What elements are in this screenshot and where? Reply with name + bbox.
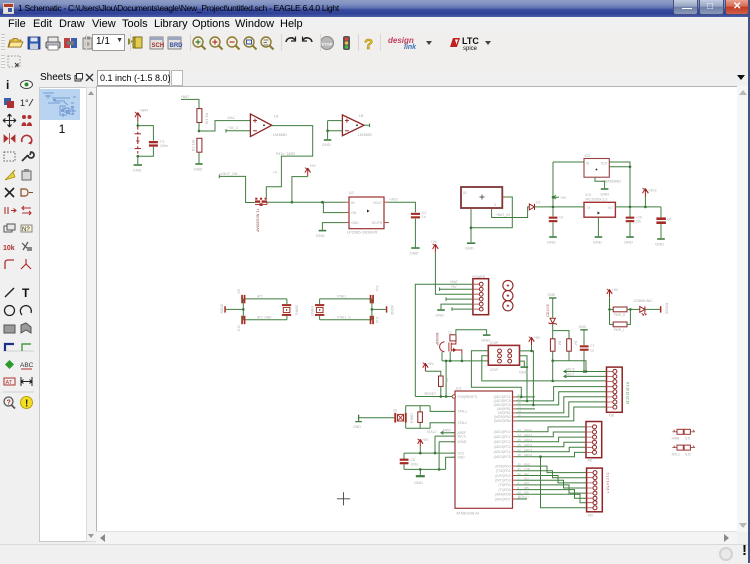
net ADC7 arrow wire: [564, 375, 607, 378]
wire IC2 out: [609, 162, 630, 207]
svg-text:AT2_GND: AT2_GND: [257, 316, 272, 320]
svg-text:VO: VO: [608, 206, 613, 210]
capacitor C12: [370, 316, 374, 324]
wire AGND: [439, 442, 455, 470]
resistor R8: [418, 412, 423, 423]
wire AVCC: [435, 436, 455, 453]
svg-text:10k: 10k: [3, 245, 15, 252]
svg-text:10k: 10k: [444, 378, 448, 384]
svg-text:GND: GND: [414, 480, 423, 485]
svg-text:ICSP: ICSP: [490, 368, 499, 372]
svg-text:1u: 1u: [590, 348, 594, 352]
svg-text:+5V: +5V: [427, 362, 434, 366]
wire C2 to ground: [414, 219, 416, 248]
svg-text:SCH: SCH: [152, 43, 165, 49]
svg-text:CD1005: CD1005: [546, 304, 550, 317]
wire ICSP gnd: [520, 361, 525, 366]
svg-text:XTAL1_G: XTAL1_G: [337, 316, 351, 320]
svg-text:T1 NDS356AP: T1 NDS356AP: [256, 209, 260, 233]
op-amp IC1B: [342, 115, 364, 136]
mcu left pin names: [458, 395, 478, 459]
svg-text:GND: GND: [481, 337, 490, 342]
resistor R2: [197, 138, 202, 152]
svg-text:25: 25: [518, 438, 522, 442]
svg-text:AGND: AGND: [458, 440, 468, 444]
svg-text:SJ2: SJ2: [685, 452, 691, 456]
ground C2: [411, 247, 419, 249]
svg-text:GND: GND: [600, 191, 609, 196]
net LIGHT_ON: [219, 175, 255, 203]
svg-text:ADC3: ADC3: [524, 443, 532, 447]
svg-text:1°: 1°: [20, 98, 29, 108]
net ADC6 arrow wire: [564, 370, 607, 373]
capacitor C8: [403, 453, 405, 459]
svg-text:LM358D: LM358D: [358, 133, 373, 137]
svg-text:R2 10k: R2 10k: [192, 139, 196, 151]
svg-text:C6: C6: [667, 217, 671, 221]
wire D1 to +5V rail node: [535, 206, 554, 208]
svg-text:+5V: +5V: [422, 438, 429, 442]
svg-text:22u: 22u: [636, 220, 642, 224]
svg-text:IO3: IO3: [524, 477, 529, 481]
connector ICSP: [488, 345, 519, 365]
net stub GND crystal Q2: [359, 417, 395, 419]
wire pc stair 4: [516, 442, 586, 447]
svg-text:ADC2: ADC2: [524, 438, 532, 442]
svg-text:GND: GND: [579, 325, 587, 329]
wire pb2 stub: [516, 408, 535, 410]
svg-text:8 9 10 11 12 13: 8 9 10 11 12 13: [626, 382, 630, 404]
svg-text:U2: U2: [349, 190, 355, 195]
wire pc stair 1: [516, 427, 586, 432]
svg-text:LP2985-33DBVR: LP2985-33DBVR: [347, 229, 378, 234]
svg-text:GND: GND: [322, 142, 331, 147]
svg-text:+BAT: +BAT: [450, 280, 458, 284]
wire C7 down: [583, 351, 585, 372]
connector SV1 top: [607, 367, 623, 412]
svg-text:26: 26: [518, 443, 522, 447]
wire IC1A output net P47n: [266, 126, 312, 198]
crosshair cursor: [337, 492, 350, 505]
svg-text:VOUT: VOUT: [373, 201, 382, 205]
svg-text:(ADC3)PC3: (ADC3)PC3: [494, 445, 511, 449]
wire ICSP pin4 right: [520, 356, 528, 401]
capacitor C2: [411, 213, 420, 219]
wire rail into IC3: [553, 206, 584, 208]
svg-text:PWR_R: PWR_R: [614, 313, 626, 317]
ground IC2: [601, 188, 609, 190]
svg-text:GND: GND: [547, 239, 556, 244]
wire pb1 stub mosi: [516, 396, 535, 398]
mcu right pin names: [494, 395, 511, 501]
svg-text:!: !: [25, 399, 28, 410]
svg-text:ADC1: ADC1: [524, 433, 532, 437]
jumper SJ1: [672, 430, 695, 432]
wire IC3 gnd: [597, 217, 599, 236]
op-amp IC1A: [250, 114, 271, 137]
svg-text:AREF: AREF: [443, 429, 452, 433]
svg-text:15: 15: [518, 413, 522, 417]
node battery bottom: [137, 155, 140, 158]
resistor R7: [439, 376, 444, 386]
svg-text:GND: GND: [194, 167, 203, 172]
svg-text:ATMEGA8-AI: ATMEGA8-AI: [456, 512, 479, 516]
svg-text:IO5: IO5: [524, 486, 529, 490]
wire led right: [645, 308, 660, 310]
supply flag +3V3: [643, 188, 649, 197]
svg-text:(RXD)PD0: (RXD)PD0: [495, 464, 510, 468]
wire pb stair row8: [516, 407, 607, 421]
svg-text:C10: C10: [237, 325, 241, 331]
svg-text:D1: D1: [536, 201, 540, 205]
svg-text:P47n_330R: P47n_330R: [276, 152, 295, 156]
wire crystal A loop: [243, 299, 287, 320]
ground mosfet: [483, 334, 491, 336]
power jack X1: [461, 187, 502, 208]
svg-text:HWB: HWB: [672, 437, 680, 441]
transistor T1: [255, 198, 267, 206]
capacitor C1: [149, 141, 158, 147]
svg-text:VI: VI: [587, 206, 590, 210]
mcu right pin stubs: [513, 397, 517, 499]
svg-text:COMMUNIC: COMMUNIC: [634, 299, 654, 303]
net AREF arrow: [441, 431, 455, 434]
svg-text:1u: 1u: [422, 215, 426, 219]
resistor R5: [610, 308, 614, 310]
wire pb stair row7: [516, 402, 607, 417]
svg-text:AT2: AT2: [257, 295, 263, 299]
wire R2 to ground: [198, 152, 200, 163]
node divider: [198, 130, 201, 133]
svg-text:0 1 2 3 4 5 6 7: 0 1 2 3 4 5 6 7: [605, 473, 609, 494]
svg-text:PC6(/RESET): PC6(/RESET): [458, 395, 478, 399]
svg-text:GND: GND: [465, 246, 474, 251]
capacitor C4: [549, 217, 558, 223]
svg-text:?: ?: [364, 36, 373, 52]
mcu pin stubs left: [452, 397, 456, 458]
svg-text:ON: ON: [351, 211, 357, 215]
svg-text:(ADC4)PC4: (ADC4)PC4: [494, 450, 511, 454]
resistor R6: [610, 309, 614, 324]
svg-text:C9: C9: [237, 289, 241, 293]
wire IC1B output stub: [364, 124, 370, 128]
svg-text:100n: 100n: [410, 462, 418, 466]
wire POWER pin5 to ground: [441, 304, 473, 309]
svg-text:GND: GND: [133, 168, 142, 173]
wire opamp minus stub: [226, 129, 250, 133]
svg-text:link: link: [404, 44, 417, 51]
svg-text:RXLC: RXLC: [672, 452, 681, 456]
supply flag +BAT: [135, 112, 141, 121]
svg-text:+5V: +5V: [451, 285, 458, 289]
mounting hole H3: [503, 301, 513, 311]
svg-text:ADC0: ADC0: [524, 428, 532, 432]
battery G1: [135, 127, 141, 155]
mounting hole H1: [503, 280, 513, 290]
IC U2 LP2985: [349, 197, 384, 229]
svg-text:+5V: +5V: [534, 336, 541, 340]
svg-text:BSS84P: BSS84P: [435, 333, 439, 347]
svg-text:(TXD)PD1: (TXD)PD1: [496, 469, 511, 473]
wire crystal B loop: [320, 299, 372, 320]
svg-text:GND: GND: [593, 239, 602, 244]
wire rail down to reset: [445, 361, 447, 397]
svg-text:16MHz: 16MHz: [310, 305, 314, 316]
svg-text:+BAT: +BAT: [181, 95, 191, 99]
svg-text:R1 10k: R1 10k: [205, 113, 209, 125]
supply flag +5V R7: [423, 363, 428, 371]
svg-text:N?: N?: [22, 227, 30, 233]
svg-text:TXD: TXD: [524, 467, 531, 471]
wire battery flag stem: [137, 121, 139, 126]
ground IC1B: [324, 139, 331, 141]
wire mosfet drain top to ground: [456, 330, 487, 336]
svg-text:X1: X1: [463, 191, 467, 195]
svg-text:LTC: LTC: [462, 36, 479, 46]
svg-text:IC2: IC2: [585, 154, 591, 158]
wire ICSP MISO: [482, 356, 607, 381]
svg-text:MC33269-3.3: MC33269-3.3: [586, 197, 608, 201]
svg-text:BRD: BRD: [170, 43, 184, 49]
wire R3 R4 bottoms: [553, 351, 586, 371]
svg-text:16MHz: 16MHz: [295, 305, 299, 316]
svg-text:11: 11: [518, 495, 521, 499]
svg-text:i: i: [6, 78, 9, 92]
wire reset net: [415, 396, 452, 398]
wire POWER pin3: [435, 253, 473, 294]
svg-text:XTAL2: XTAL2: [458, 421, 468, 425]
svg-text:(INT0)PD2: (INT0)PD2: [495, 474, 510, 478]
wire pb stair row4: [516, 387, 607, 401]
svg-text:AGND: AGND: [390, 305, 394, 315]
svg-text:1M: 1M: [557, 341, 561, 346]
svg-text:PWR_L: PWR_L: [614, 328, 625, 332]
svg-text:XTAL1: XTAL1: [458, 410, 468, 414]
svg-text:AGND: AGND: [220, 303, 224, 313]
ground battery: [134, 164, 142, 166]
ground mcu: [419, 469, 421, 475]
svg-text:23: 23: [518, 428, 522, 432]
svg-text:1A: 1A: [274, 115, 279, 119]
svg-text:(MISO)PB4: (MISO)PB4: [494, 419, 511, 423]
wire pd2 stair 6: [516, 490, 587, 499]
svg-text:IO7: IO7: [524, 495, 529, 499]
node U2 in: [321, 201, 324, 204]
crystal Q1: [282, 304, 291, 316]
svg-text:+9V: +9V: [560, 196, 567, 200]
svg-text:IO6: IO6: [524, 491, 529, 495]
wire long drop to sv3: [541, 457, 587, 508]
wire TVS node: [553, 324, 569, 339]
wire POWER pin6: [452, 307, 473, 311]
wire pc stair 2: [516, 432, 586, 437]
svg-text:(T1)PD5: (T1)PD5: [498, 488, 510, 492]
svg-text:AD: AD: [588, 459, 593, 463]
svg-text:IO8: IO8: [609, 414, 615, 418]
svg-text:OUT: OUT: [601, 162, 608, 166]
svg-text:DAC: DAC: [228, 116, 236, 120]
svg-text:30: 30: [518, 462, 522, 466]
net stub crystal A left: [226, 308, 244, 310]
svg-text:+5V: +5V: [431, 240, 438, 244]
svg-text:GND: GND: [655, 241, 664, 246]
wire IC3 out rail: [615, 206, 661, 208]
svg-text:+3V3: +3V3: [648, 189, 657, 193]
svg-text:RXLED: RXLED: [665, 303, 669, 315]
svg-text:GND: GND: [410, 250, 419, 255]
svg-text:C1: C1: [160, 140, 165, 144]
mcu reset bubble: [452, 395, 455, 398]
svg-text:+5V_2: +5V_2: [228, 126, 239, 130]
wire jack center pin: [492, 207, 530, 218]
wire POWER pin1 +BAT / reset rail: [415, 284, 473, 396]
svg-text:T: T: [22, 286, 30, 300]
jumper SJ2: [672, 446, 695, 448]
supply flag +5V POWER pin3: [433, 244, 439, 253]
svg-text:+BAT_IN: +BAT_IN: [496, 213, 511, 217]
svg-text:ADC4: ADC4: [524, 448, 532, 452]
svg-text:(AIN0)PD6: (AIN0)PD6: [495, 493, 511, 497]
net stub crystal B right: [372, 308, 386, 310]
svg-text:100n: 100n: [160, 144, 168, 148]
wire C8 bottom row: [404, 457, 455, 469]
capacitor C7: [580, 345, 589, 351]
wire main vertical +9V: [552, 162, 554, 216]
svg-text:GND: GND: [458, 456, 466, 460]
supply flag +5V transistor: [305, 168, 311, 177]
wire ICSP MOSI: [471, 351, 521, 397]
wire mosfet to rail: [442, 352, 462, 361]
svg-text:IO4: IO4: [524, 481, 529, 485]
svg-text:+BAT: +BAT: [140, 109, 150, 113]
svg-text:GND: GND: [548, 293, 556, 297]
svg-text:31: 31: [518, 467, 522, 471]
wire U2 VOUT: [388, 202, 416, 212]
wire node to opamp plus: [199, 121, 250, 131]
wire crystal loop top: [406, 406, 455, 413]
wire pd2 stair 1: [516, 466, 587, 473]
svg-text:?: ?: [7, 400, 11, 407]
svg-text:10: 10: [518, 491, 522, 495]
crystal Q3: [315, 304, 324, 316]
ground divider: [195, 163, 202, 165]
crystal Q2: [394, 413, 406, 423]
wire battery loop: [138, 126, 154, 157]
svg-text:+3V3: +3V3: [389, 198, 398, 202]
capacitor C11: [370, 295, 374, 303]
wires IC1B inputs: [328, 121, 343, 140]
diode D2 zener: [549, 318, 557, 324]
capacitor C10: [241, 316, 245, 324]
wire R1 to node: [198, 123, 200, 132]
svg-text:IN: IN: [351, 201, 355, 205]
wire pd2 stair 2: [516, 471, 587, 478]
svg-text:C12: C12: [375, 317, 379, 323]
wire rail to U2: [267, 201, 346, 203]
svg-text:C2: C2: [422, 211, 427, 215]
wire jack sleeve loop: [471, 197, 512, 242]
svg-text:IC3: IC3: [586, 193, 592, 197]
wire pd2 stair 5: [516, 485, 587, 493]
svg-text:NC/FB: NC/FB: [372, 221, 383, 225]
resistor R3: [550, 339, 555, 351]
wire rail y361: [442, 360, 488, 362]
wire pb stair row6: [516, 397, 607, 413]
svg-text:XTAL1: XTAL1: [337, 295, 347, 299]
svg-text:(AIN1)PD7: (AIN1)PD7: [495, 497, 511, 501]
node battery top: [137, 124, 140, 127]
wire flag to rail: [292, 177, 308, 203]
svg-text:C8: C8: [410, 458, 414, 462]
wire pd2 stair 4: [516, 480, 587, 488]
wire crystal loop bottom: [406, 422, 455, 428]
svg-text:24: 24: [518, 433, 522, 437]
wire IC2 gnd: [595, 177, 605, 188]
ground U2: [319, 230, 327, 232]
wire VCC row: [404, 452, 455, 454]
connector SV3 bottom: [587, 468, 603, 512]
svg-text:32: 32: [518, 472, 522, 476]
svg-text:ABC: ABC: [20, 362, 34, 369]
svg-text:28: 28: [518, 453, 522, 457]
wire IC2 in: [553, 161, 584, 163]
svg-text:IO0: IO0: [588, 514, 594, 518]
svg-text:XTAL2: XTAL2: [427, 430, 437, 434]
IC2 regulator 78M05: [584, 159, 609, 178]
resistor R4: [567, 339, 572, 351]
wire POWER pin4: [446, 297, 473, 301]
svg-text:(ADC2)PC2: (ADC2)PC2: [494, 440, 511, 444]
wire POWER pin2: [440, 287, 473, 291]
net flag +9V: [553, 195, 559, 199]
connector SV2 middle: [586, 422, 602, 458]
svg-text:GND: GND: [435, 312, 444, 317]
resistor R1: [197, 109, 202, 123]
svg-text:SJ1: SJ1: [685, 437, 691, 441]
svg-text:(ADC0)PC0: (ADC0)PC0: [494, 430, 511, 434]
svg-text:+5V: +5V: [612, 288, 619, 292]
svg-text:ADC6: ADC6: [566, 367, 575, 371]
wire flag to rail: [644, 197, 646, 207]
capacitor C5: [626, 217, 635, 223]
net labels on pc wires: [524, 428, 532, 499]
svg-text:RXD: RXD: [524, 462, 531, 466]
wire U2 ON: [323, 202, 345, 212]
supply flag +5V led: [607, 289, 612, 298]
wire R3 down: [552, 361, 554, 381]
wire flag to led node: [609, 298, 611, 310]
wire to ground: [137, 156, 139, 164]
svg-text:(INT1)PD3: (INT1)PD3: [495, 479, 510, 483]
svg-text:AT: AT: [6, 380, 13, 386]
svg-text:AVCC: AVCC: [458, 434, 467, 438]
supply flag +5V ICSP: [529, 337, 534, 346]
svg-text:Q2: Q2: [393, 408, 397, 412]
svg-text:C11: C11: [375, 286, 379, 292]
mounting hole H2: [503, 291, 513, 301]
wire pd2 stair 7: [516, 494, 587, 502]
ground jack: [467, 242, 475, 244]
svg-text:GND: GND: [316, 233, 325, 238]
svg-text:GND: GND: [624, 239, 633, 244]
svg-text:(ADC5)PC5: (ADC5)PC5: [494, 455, 511, 459]
diode D1: [529, 204, 534, 210]
wire pb stair row5: [516, 392, 607, 405]
svg-text:16MHz: 16MHz: [410, 413, 414, 424]
wire U2 GND: [322, 223, 345, 230]
wire divider top: [181, 99, 199, 108]
supply flag +5V vcc: [418, 439, 423, 447]
